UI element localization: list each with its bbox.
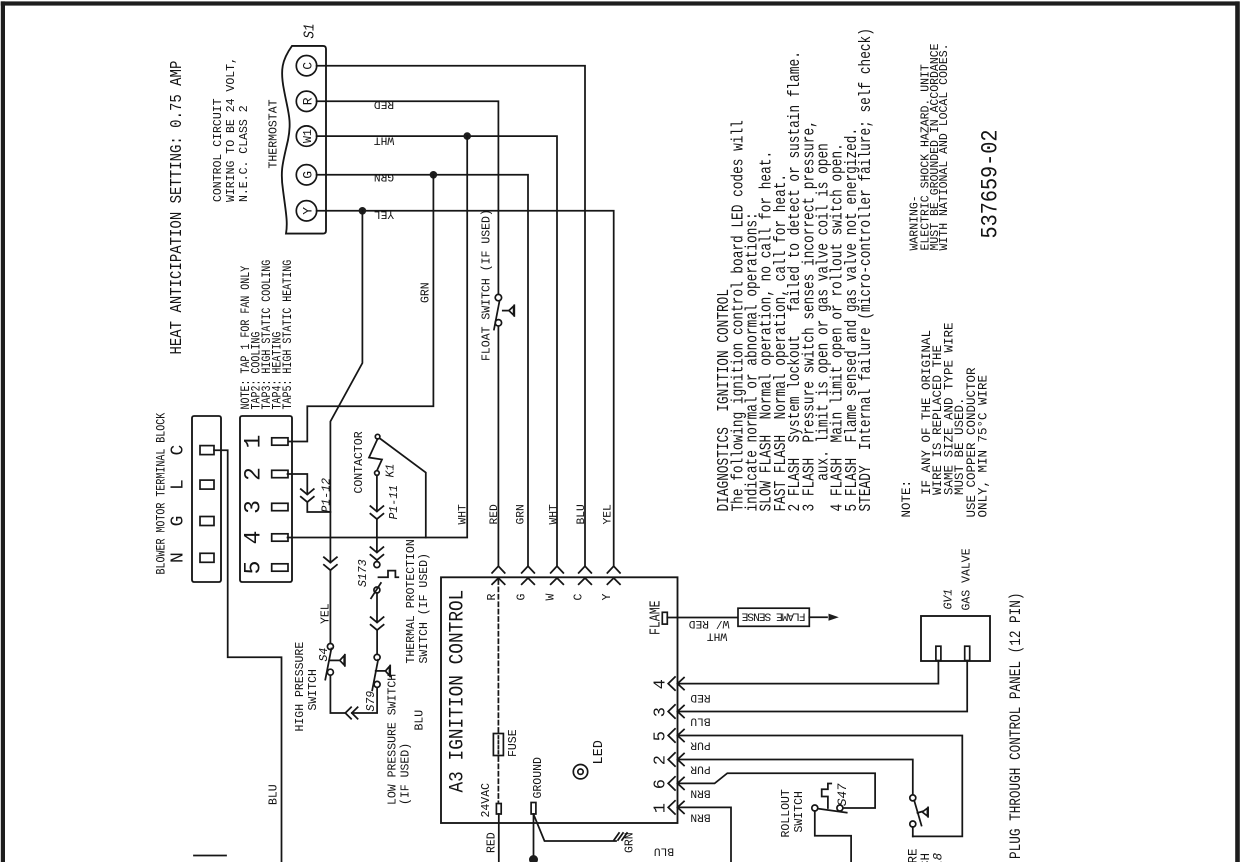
svg-text:N: N (169, 552, 189, 563)
svg-text:S47: S47 (836, 783, 850, 806)
connector P1-12 chevrons (301, 489, 314, 502)
tap terminal block outline (240, 416, 292, 582)
wire pin 1 to bottom (678, 807, 732, 862)
svg-text:WHT: WHT (549, 504, 561, 525)
svg-text:24VAC: 24VAC (480, 783, 493, 818)
svg-text:BLU: BLU (414, 710, 427, 731)
connector P1-11 chevrons (370, 506, 383, 519)
wire G to board (GRN) (317, 175, 528, 566)
svg-text:FLAME: FLAME (648, 601, 665, 635)
svg-text:PUR: PUR (690, 739, 711, 751)
svg-text:SWITCH: SWITCH (307, 669, 320, 710)
svg-text:K1: K1 (385, 464, 398, 478)
border frame top (1, 1, 1239, 5)
svg-text:P1-12: P1-12 (321, 478, 334, 513)
svg-text:R: R (486, 594, 499, 601)
gas valve pin left (936, 646, 941, 660)
svg-text:RED: RED (486, 832, 499, 853)
border frame right (1235, 1, 1240, 862)
svg-text:CONTACTOR: CONTACTOR (353, 431, 366, 493)
svg-text:STEADY Internal failure (micr: STEADY Internal failure (micro-controlle… (858, 28, 876, 511)
junction dot on G wire (430, 171, 438, 179)
GROUND terminal (531, 803, 536, 815)
chassis ground hatches (614, 833, 627, 840)
svg-text:GRN: GRN (624, 832, 637, 853)
svg-text:5: 5 (651, 731, 670, 741)
tap pin 5 (272, 564, 288, 571)
border frame left (1, 1, 5, 862)
terminal C circle (296, 55, 316, 75)
svg-text:YEL: YEL (603, 504, 615, 525)
svg-text:W1: W1 (302, 129, 315, 143)
svg-text:L: L (169, 479, 189, 490)
terminal W1 circle (296, 126, 316, 146)
terminal R circle (296, 91, 316, 111)
svg-text:YEL: YEL (320, 603, 333, 624)
blower terminal N (200, 553, 214, 562)
svg-text:YEL: YEL (374, 208, 395, 220)
tap pin 1 (272, 438, 288, 445)
svg-text:GRN: GRN (374, 170, 394, 182)
wire pin 4 to gas valve (678, 661, 939, 684)
svg-text:C: C (169, 445, 189, 456)
svg-text:4: 4 (651, 679, 670, 689)
svg-text:WITH NATIONAL AND LOCAL CODES.: WITH NATIONAL AND LOCAL CODES. (938, 43, 951, 250)
wire WHT from W1 junction to tap pin 4 (288, 136, 468, 537)
board input terminal G chevrons (522, 566, 535, 584)
wire aux switch bottom (912, 827, 914, 836)
connector chevrons on S4-S79 wire (345, 707, 357, 719)
svg-text:BRN: BRN (690, 787, 710, 799)
svg-text:S79: S79 (365, 691, 378, 712)
svg-text:GV1: GV1 (943, 589, 956, 610)
svg-text:S18: S18 (932, 852, 946, 862)
wire YEL branch from Y junction to S4 (330, 211, 362, 644)
svg-text:BLU: BLU (576, 504, 588, 524)
blower terminal L (200, 480, 214, 489)
svg-text:5: 5 (241, 561, 267, 575)
tap pin 3 (272, 503, 288, 510)
ignition control board A3 outline (441, 577, 678, 823)
svg-text:ONLY, MIN 75°C WIRE: ONLY, MIN 75°C WIRE (976, 375, 990, 518)
svg-text:S1: S1 (303, 24, 319, 39)
wire GRN branch from G junction to tap terminal 1 (288, 175, 434, 442)
svg-text:1: 1 (241, 435, 267, 449)
FLAME terminal (662, 612, 667, 624)
svg-text:HIGH PRESSURE: HIGH PRESSURE (294, 642, 307, 732)
svg-text:Y: Y (301, 207, 316, 215)
svg-text:WHT: WHT (707, 629, 728, 641)
svg-text:3: 3 (241, 500, 267, 514)
terminal Y circle (296, 201, 316, 221)
wire pin 6 to rollout switch (678, 773, 876, 808)
board input terminal Y chevrons (607, 566, 620, 584)
board input terminal W chevrons (551, 566, 564, 584)
wire pin 2 to aux pressure switch (678, 760, 913, 795)
svg-text:G: G (169, 516, 189, 527)
junction dot on Y wire (359, 207, 367, 215)
svg-text:C: C (301, 62, 316, 70)
blower terminal C (200, 446, 214, 455)
low pressure switch S79 (372, 654, 390, 690)
junction dot on ground wire (529, 855, 538, 862)
svg-text:C: C (573, 594, 586, 601)
svg-text:2: 2 (241, 467, 267, 481)
svg-text:Y: Y (601, 594, 614, 601)
wire from GROUND terminal down (533, 814, 535, 862)
svg-text:PUR: PUR (690, 763, 711, 775)
wire tap pin 2 to P1-12 (288, 474, 331, 512)
svg-text:3: 3 (651, 707, 670, 717)
wire BLU from blower C terminal to bottom (214, 450, 282, 862)
svg-text:BRN: BRN (690, 811, 710, 823)
svg-text:PLUG THROUGH CONTROL PANEL (12: PLUG THROUGH CONTROL PANEL (12 PIN) (1008, 592, 1025, 859)
terminal G circle (296, 165, 316, 185)
fuse (493, 734, 503, 756)
rollout switch S47 (812, 784, 847, 813)
wire S173 to S79 chevrons (376, 593, 378, 654)
wire flame sensor (667, 617, 738, 619)
svg-text:BLOWER MOTOR TERMINAL BLOCK: BLOWER MOTOR TERMINAL BLOCK (155, 413, 170, 575)
tap pin 4 (272, 534, 288, 541)
wire R to board (RED), gap for float switch (317, 101, 499, 293)
svg-text:THERMAL PROTECTION: THERMAL PROTECTION (405, 539, 418, 663)
svg-text:G: G (301, 171, 316, 179)
svg-text:P1-11: P1-11 (388, 485, 401, 520)
thermostat S1 block outline (282, 46, 326, 234)
svg-text:BLU: BLU (654, 845, 674, 857)
wire C to board (BLU) (317, 66, 585, 567)
svg-text:FLAME SENSE: FLAME SENSE (741, 609, 805, 621)
svg-text:LED: LED (592, 740, 607, 764)
wire W1 to board (WHT) (317, 136, 557, 566)
gas valve GV1 outline (921, 616, 990, 661)
wire Y to board (YEL) (317, 211, 614, 566)
svg-text:A3 IGNITION CONTROL: A3 IGNITION CONTROL (445, 590, 468, 793)
svg-text:LOW PRESSURE SWITCH: LOW PRESSURE SWITCH (387, 674, 400, 805)
tap pin 2 (272, 470, 288, 477)
gas valve pin right (965, 646, 970, 660)
svg-text:N.E.C. CLASS 2: N.E.C. CLASS 2 (238, 105, 251, 202)
svg-text:RED: RED (374, 98, 395, 110)
svg-text:4: 4 (241, 531, 267, 545)
svg-text:GRN: GRN (515, 504, 527, 524)
svg-text:R: R (301, 97, 316, 105)
svg-text:(IF USED): (IF USED) (400, 743, 413, 805)
connector chevrons on YEL wire (324, 557, 337, 570)
wire pin 3 to gas valve (678, 661, 968, 712)
svg-text:WHT: WHT (457, 504, 469, 525)
svg-text:W/ RED: W/ RED (688, 617, 729, 629)
blower terminal G (200, 517, 214, 526)
wire rollout left to bottom (815, 811, 851, 862)
aux pressure switch S18 (910, 795, 928, 827)
svg-text:G: G (516, 594, 529, 601)
wire pin 5 to aux pressure switch (678, 736, 963, 837)
svg-text:S4: S4 (318, 648, 331, 662)
svg-text:WIRING TO BE 24 VOLT,: WIRING TO BE 24 VOLT, (225, 57, 238, 202)
svg-text:THERMOSTAT: THERMOSTAT (268, 99, 281, 168)
blower motor terminal block outline (192, 416, 221, 582)
svg-text:ROLLOUT: ROLLOUT (780, 789, 793, 837)
svg-text:S173: S173 (357, 559, 370, 587)
svg-text:TAP5: HIGH STATIC HEATING: TAP5: HIGH STATIC HEATING (282, 260, 295, 410)
svg-text:SWITCH (IF USED): SWITCH (IF USED) (418, 553, 431, 663)
svg-text:SWITCH: SWITCH (793, 791, 806, 832)
svg-text:NOTE:: NOTE: (900, 480, 914, 518)
svg-text:CONTROL CIRCUIT: CONTROL CIRCUIT (212, 98, 225, 202)
LED indicator (573, 765, 587, 779)
flame sense arrow (809, 616, 827, 618)
svg-text:RED: RED (690, 691, 711, 703)
svg-text:W: W (545, 594, 558, 601)
svg-text:GRN: GRN (420, 282, 433, 303)
wire to chassis ground (534, 815, 616, 841)
svg-text:BLU: BLU (268, 784, 281, 805)
svg-text:2: 2 (651, 755, 670, 765)
svg-text:537659-02: 537659-02 (977, 129, 1004, 238)
contactor K1 (369, 434, 426, 537)
svg-text:WHT: WHT (374, 134, 395, 146)
board input terminal C chevrons (579, 566, 592, 584)
junction dot on W1 wire (463, 132, 471, 140)
wire RED from 24VAC to bottom (498, 814, 500, 862)
svg-text:BLU: BLU (690, 715, 710, 727)
high pressure switch S4 (325, 644, 345, 680)
svg-text:GROUND: GROUND (532, 757, 545, 799)
svg-text:1: 1 (651, 803, 670, 813)
svg-text:6: 6 (651, 779, 670, 789)
dashed R line inside board (497, 580, 499, 732)
wire contactor to S173 (376, 475, 378, 561)
svg-text:GAS VALVE: GAS VALVE (961, 548, 974, 610)
board input terminal R chevrons (492, 566, 505, 584)
svg-text:FUSE: FUSE (507, 729, 520, 757)
float switch on RED wire (494, 294, 514, 329)
24VAC terminal (496, 804, 501, 815)
partial component at bottom edge (194, 855, 226, 857)
svg-text:RED: RED (489, 504, 501, 525)
FLAME SENSE box (738, 608, 809, 626)
svg-text:FLOAT SWITCH (IF USED): FLOAT SWITCH (IF USED) (481, 209, 494, 361)
wire S4 bottom to S79 bottom (330, 675, 377, 713)
thermal protection switch S173 (371, 562, 398, 599)
svg-text:HEAT ANTICIPATION SETTING: 0.7: HEAT ANTICIPATION SETTING: 0.75 AMP (167, 61, 187, 355)
